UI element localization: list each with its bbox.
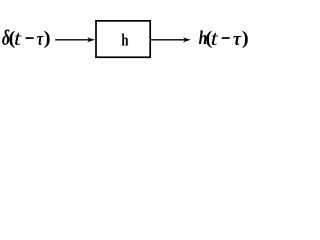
svg-text:τ: τ <box>37 28 44 49</box>
svg-text:τ: τ <box>233 29 242 49</box>
node output label h(t-tau) <box>199 28 208 49</box>
block h (box) <box>96 21 150 57</box>
wire input arrow <box>55 37 95 43</box>
svg-text:t: t <box>14 27 22 50</box>
node input label delta(t-tau) <box>2 27 10 51</box>
svg-text:): ) <box>242 27 249 48</box>
wire output arrow <box>151 37 191 43</box>
svg-text:t: t <box>211 27 219 50</box>
svg-text:h: h <box>121 32 128 50</box>
block label h <box>121 32 128 50</box>
svg-text:): ) <box>44 27 51 48</box>
